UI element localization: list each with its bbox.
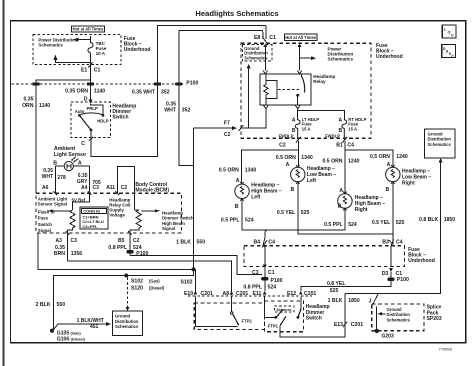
svg-text:10 A: 10 A [96,51,106,56]
svg-text:FTP2: FTP2 [242,318,253,323]
svg-text:B: B [386,187,390,193]
svg-text:C1: C1 [94,67,101,73]
connector C2 exit tick [296,137,301,143]
svg-text:1340: 1340 [245,168,257,174]
J branch into splice [373,293,379,304]
nav icon box DESC [442,44,456,58]
wire: relay output to fuses [298,109,345,120]
dashed link to ground distribution [127,278,129,309]
svg-text:P100: P100 [397,277,409,283]
svg-text:(Diesel): (Diesel) [71,337,86,342]
svg-text:B: B [235,204,239,210]
relay dashed actuator link [278,88,300,90]
svg-text:Schematics: Schematics [328,57,354,62]
svg-text:0.5 ORN: 0.5 ORN [323,159,343,165]
wire: YEL through fuse box [390,247,392,267]
svg-text:Headlights Schematics: Headlights Schematics [195,9,278,18]
BCM interior wire + resistor (high beam signal) [135,202,139,210]
wire: sensor B to BCM A6 (0.35 WHT 278) [55,166,64,193]
svg-text:0.5 PPL: 0.5 PPL [324,222,343,228]
svg-text:WHT: WHT [42,174,53,180]
svg-text:C4: C4 [347,142,354,148]
svg-text:FWDLP: FWDLP [325,133,340,138]
svg-text:S102: S102 [181,279,193,285]
svg-text:Left: Left [251,195,260,201]
svg-text:Voltage: Voltage [109,212,125,217]
svg-text:A11: A11 [106,185,115,191]
svg-text:C2: C2 [121,185,128,191]
svg-text:525: 525 [301,210,310,216]
wire: ground bus (line4) to 2 BLK [53,269,193,329]
svg-text:G106: G106 [57,337,69,343]
svg-text:E13: E13 [334,322,343,328]
svg-text:A: A [286,162,290,168]
connector P100 dashed line [12,83,184,85]
svg-text:Schematics: Schematics [115,324,139,329]
wire: arrow to power distribution [76,39,91,41]
wire: BCM pins A11 / C2 loop [117,167,134,202]
P100 pin blob (x36) [32,82,39,85]
nav icon box LOC [442,25,456,38]
svg-text:(Gas): (Gas) [71,331,82,336]
switch arm [80,116,91,130]
wire: 0.35 WHT 352 (wire2 drop) [179,86,194,166]
BCM dashed box [36,193,182,233]
svg-text:Switch: Switch [306,316,322,322]
svg-text:0.35: 0.35 [23,97,33,103]
svg-text:524: 524 [268,285,277,291]
wire: hot feed into relay switch [298,44,302,47]
svg-text:A6: A6 [42,185,49,191]
splice S102/S120 dot [124,274,128,278]
flash-to-pass contact [230,312,233,315]
svg-text:B: B [53,160,57,166]
svg-text:352: 352 [161,89,170,95]
svg-text:0.35: 0.35 [55,245,65,251]
svg-text:FWDLP: FWDLP [279,133,294,138]
wire: FTP1 to E13 [280,293,345,337]
dimmer contact arm [277,310,283,317]
P100 connector blob (PPL) [126,250,133,253]
splice pack SP203 dashed box [372,304,424,331]
relay coil [264,74,268,105]
wire: 0.8 PPL 524 to P100 [129,233,131,256]
svg-text:Sensor Signal: Sensor Signal [38,201,67,206]
svg-text:550: 550 [197,239,206,245]
svg-text:E8: E8 [254,35,260,41]
connector E8|C1 tick [262,37,267,44]
svg-text:1 BLK: 1 BLK [176,239,191,245]
svg-text:Underhood: Underhood [408,258,435,264]
svg-text:D: D [84,96,88,102]
svg-text:0.8 YEL: 0.8 YEL [327,281,345,287]
svg-text:0.5 ORN: 0.5 ORN [276,155,296,161]
svg-text:S120: S120 [131,285,143,291]
light arrows into sensor [72,157,78,162]
arrow to high beam signal text [142,210,158,212]
svg-text:1340: 1340 [301,155,313,161]
svg-text:0.8 PPL: 0.8 PPL [243,285,262,291]
wire: E8 feed into relay [263,44,267,47]
contact dot HDLP [102,114,105,117]
svg-text:P100: P100 [271,278,283,284]
connector B4|C4 tick [263,239,268,248]
P100 blob (PPL lower) [261,277,268,280]
wire: PPL 524 net (high beams return) [242,199,345,239]
svg-text:PRLP: PRLP [87,106,98,111]
svg-text:C3: C3 [71,238,78,244]
svg-text:B: B [338,204,342,210]
svg-text:Schematics: Schematics [387,317,411,322]
svg-text:451: 451 [90,324,99,330]
lamp pin marks [296,165,300,184]
svg-text:Schematics: Schematics [38,43,63,48]
svg-text:Schematics: Schematics [428,142,452,147]
P100 blob (YEL lower) [387,278,394,281]
svg-text:0.5 YEL: 0.5 YEL [277,210,295,216]
svg-text:A: A [338,118,342,124]
wire: WHT 352 feed lines to E8/C1 [158,25,267,82]
dimmer internal: D feed to HDLP contact [91,104,103,114]
fuse LT HDLP [295,120,300,140]
wire: fuse output down to E1/C1 [90,53,92,80]
svg-text:1140: 1140 [94,89,105,95]
wire: LT feed split [241,141,298,184]
wiper arc [81,113,103,115]
arrow to flash-to-pass text [50,210,70,212]
svg-text:525: 525 [330,288,339,294]
svg-text:(Diesel): (Diesel) [149,285,165,290]
svg-text:C1: C1 [269,35,276,41]
wire: PPL 524 runs right (line1) [130,256,262,275]
lamp: headlamp low beam left [291,166,337,184]
wire: F7/C2 exit to ground drop [194,127,234,129]
svg-text:0.8 BLK: 0.8 BLK [419,217,438,223]
svg-text:Dimmer: Dimmer [277,307,292,312]
svg-text:15 A: 15 A [302,126,311,131]
BCM pin ticks bottom [66,231,132,235]
svg-text:FTP1: FTP1 [268,324,279,329]
BCM pin ticks top [54,191,120,195]
svg-text:C4: C4 [268,239,275,245]
svg-text:J: J [369,298,372,304]
svg-text:BRN: BRN [54,251,65,257]
wire: interior branch with up arrow [55,58,90,63]
relay pin arrows bottom [264,105,300,108]
svg-text:0.8 PPL: 0.8 PPL [108,245,127,251]
svg-text:ORN: ORN [22,103,34,109]
wire: A8 into flash-to-pass [230,291,234,295]
wire: PPL through fuse box [264,247,265,266]
wire: C output [90,130,92,138]
connector E1|C1 tick [88,62,93,67]
svg-text:E1: E1 [81,67,87,73]
BCM interior wire + resistor (flash to pass) [73,193,90,210]
fuse RT HDLP [342,120,347,140]
svg-text:0.35 ORN: 0.35 ORN [65,89,88,95]
svg-text:1 BLK: 1 BLK [328,298,343,304]
wire: sensor A to BCM A4/C3 (0.35 GRY 705) [73,166,89,193]
svg-text:WHT: WHT [164,108,177,114]
wire: 1 BLK 550 drop from F7 [193,128,195,269]
P100 pin blob (x157.5) [154,82,161,85]
wire: relay coil return to F7/C2 [241,109,266,128]
ground G105/G106 dot [50,329,54,333]
svg-text:525: 525 [396,220,405,226]
connector D3|C1 [389,268,393,272]
svg-text:0.35: 0.35 [78,173,88,179]
svg-text:C2: C2 [133,238,140,244]
svg-text:A8: A8 [223,291,230,297]
wire: PPL to E11 [264,280,266,291]
power distribution dashed box [33,34,121,64]
fuse block dashed box [241,43,371,138]
ground distribution schematics box (left) [112,311,142,335]
svg-text:1850: 1850 [444,217,456,223]
svg-text:Right: Right [355,207,368,213]
svg-text:352: 352 [182,108,191,114]
svg-text:Switch: Switch [112,114,128,120]
wire: feed split to left [36,80,91,83]
svg-text:2 BLK: 2 BLK [36,302,51,308]
svg-text:E11: E11 [253,291,262,297]
wire: S102 to E10 and FTP switch [194,269,238,326]
svg-text:CONN ID: CONN ID [83,209,100,214]
svg-text:0.35: 0.35 [166,101,176,107]
svg-text:Relay: Relay [313,79,326,84]
P100 pin blob (x178.8) [175,82,182,85]
svg-text:A3: A3 [56,238,63,244]
flash-to-pass dashed box [194,303,264,329]
svg-text:Underhood: Underhood [376,54,403,60]
svg-text:C201: C201 [351,322,363,328]
svg-text:A: A [292,118,296,124]
svg-text:A: A [387,162,391,168]
fuse TBC (symbol) [88,36,93,62]
svg-text:773693: 773693 [439,347,453,352]
svg-text:0.5 ORN: 0.5 ORN [370,154,390,160]
connector B3|C4 tick [389,240,394,247]
svg-text:C: C [81,141,85,147]
wire: BRN 1356 runs right (line2) to A8 [68,261,232,295]
svg-text:HDLP: HDLP [97,118,109,123]
svg-text:A: A [78,160,82,166]
wire: RT feed split [345,141,393,194]
lamp: headlamp low beam right [386,167,432,186]
lamp: headlamp high beam right [338,194,386,213]
svg-text:524: 524 [348,222,357,228]
svg-text:278: 278 [57,175,66,181]
svg-text:P100: P100 [186,80,198,86]
svg-text:Signal: Signal [38,228,51,233]
svg-text:1140: 1140 [39,103,50,109]
connector C201 dashed line [188,295,312,297]
svg-text:15 A: 15 A [348,126,357,131]
svg-text:C3=PPL: C3=PPL [82,224,98,229]
relay switch [301,74,303,76]
svg-text:F7: F7 [224,121,230,127]
connector E13|C201 [343,322,347,328]
svg-text:1850: 1850 [348,298,360,304]
P100 pin blob (x90.5) [87,82,94,85]
svg-text:B5: B5 [118,238,125,244]
svg-text:SP203: SP203 [427,316,442,322]
svg-text:A4: A4 [81,185,88,191]
svg-text:0.35 WHT: 0.35 WHT [132,89,156,95]
sensor symbol [64,162,73,171]
binding edge line [3,0,5,366]
wire: 0.35 ORN 1140 (to dimmer D) [90,86,92,101]
svg-text:A: A [236,178,240,184]
svg-text:D3: D3 [382,271,389,277]
hot-at-all-times label box (left) [72,26,105,32]
ground distribution schematics box (top right) [425,129,455,158]
svg-text:C201: C201 [304,291,316,297]
lamp: headlamp high beam left [235,183,282,201]
wire: 0.35 ORN 1140 (left drop to BCM) [35,86,37,194]
svg-text:1356: 1356 [71,251,83,257]
svg-text:B4: B4 [254,239,261,245]
svg-text:0.5 PPL: 0.5 PPL [221,217,240,223]
svg-text:C3: C3 [252,270,259,276]
svg-text:C4: C4 [396,239,403,245]
connector C3|C1 [263,265,267,269]
wire: YEL 525 net (low beams return) [298,182,393,245]
dimmer switch dashed box [71,102,111,137]
ground G203 [375,329,379,333]
svg-text:C1: C1 [268,270,275,276]
svg-text:C: C [451,34,454,38]
svg-text:Switch: Switch [38,222,52,227]
wire: BCM left drop (line3) [38,233,194,269]
svg-text:C2: C2 [279,142,286,148]
svg-text:B1: B1 [336,142,343,148]
svg-text:S102: S102 [131,278,143,284]
svg-text:Left: Left [307,178,317,184]
svg-text:0.5 ORN: 0.5 ORN [219,168,239,174]
svg-text:A: A [339,188,343,194]
svg-text:Auto: Auto [75,109,85,114]
svg-text:1 BLK/WHT: 1 BLK/WHT [77,318,104,324]
svg-text:C201: C201 [236,291,248,297]
wire: 0.8 BLK 1850 [345,162,441,294]
wire: 0.35 BRN 1356 [67,233,69,261]
svg-text:Signal: Signal [162,226,175,231]
svg-text:Schematics: Schematics [244,55,268,60]
svg-text:C2: C2 [224,132,231,138]
svg-text:Hot at All Times: Hot at All Times [73,27,104,32]
svg-text:C3: C3 [93,185,100,191]
svg-text:Underhood: Underhood [124,47,151,53]
svg-text:0.5 YEL: 0.5 YEL [372,220,390,226]
svg-text:1240: 1240 [348,159,360,165]
connector B1|C4 exit tick [343,137,348,143]
svg-text:550: 550 [57,302,66,308]
Dimmer label box [275,306,295,312]
svg-text:Right: Right [402,180,415,186]
svg-text:G203: G203 [382,334,394,340]
wire: E11 into dimmer [263,291,267,295]
svg-text:B: B [291,187,295,193]
wire: ground ref vertical with arrow [248,68,250,128]
svg-text:Pass: Pass [38,216,49,221]
ground distribution schematics dashed box (inside fuse block) [242,45,271,62]
contact dot Auto [78,114,81,117]
FTP1 arm [280,316,286,325]
svg-text:524: 524 [245,217,254,223]
wire: E12 into dimmer [299,291,303,295]
svg-text:1240: 1240 [396,154,408,160]
junction dot at S102 (right) [192,267,196,271]
hot-at-all-times label box (right) [285,34,318,40]
CONN ID table [80,207,108,229]
svg-text:B3: B3 [382,239,389,245]
svg-text:Light Sensor: Light Sensor [54,152,86,158]
svg-text:(Gas): (Gas) [149,278,160,283]
svg-text:C201: C201 [201,291,213,297]
wire: YEL to E12 [301,281,391,291]
svg-text:E12: E12 [287,291,296,297]
svg-text:Hot at All Times: Hot at All Times [285,35,316,40]
